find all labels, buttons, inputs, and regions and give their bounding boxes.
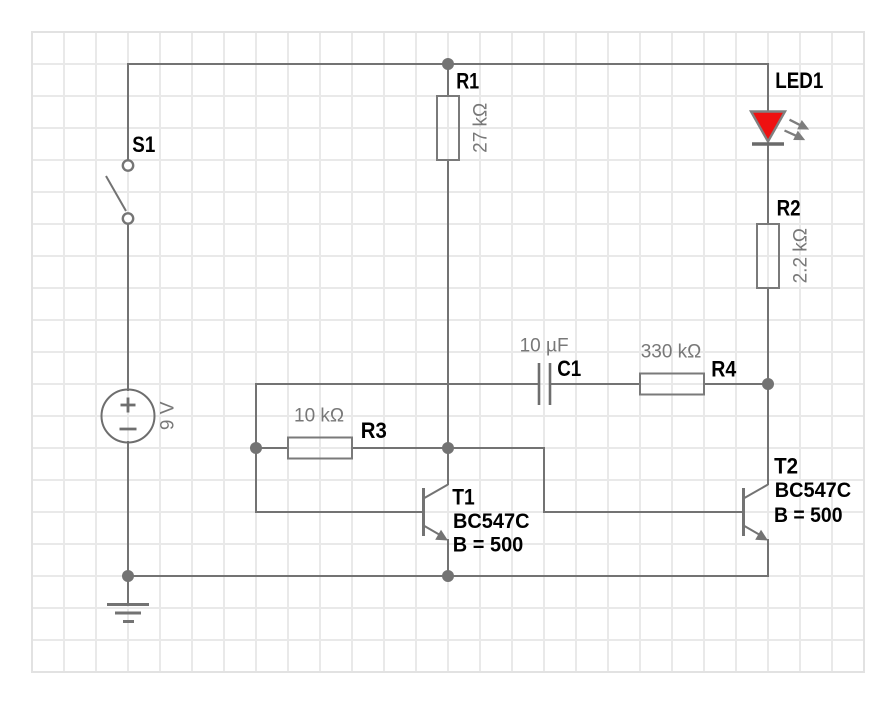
svg-text:R1: R1	[456, 68, 479, 93]
svg-text:10 µF: 10 µF	[520, 336, 569, 357]
svg-text:BC547C: BC547C	[775, 478, 852, 502]
svg-text:C1: C1	[557, 356, 581, 381]
svg-text:9 V: 9 V	[158, 401, 179, 430]
svg-text:T1: T1	[452, 485, 475, 510]
svg-text:330 kΩ: 330 kΩ	[641, 341, 702, 362]
svg-text:B = 500: B = 500	[453, 533, 524, 557]
svg-text:R3: R3	[361, 418, 387, 443]
svg-text:27 kΩ: 27 kΩ	[471, 103, 492, 153]
svg-text:T2: T2	[774, 453, 798, 478]
svg-text:S1: S1	[132, 132, 155, 157]
svg-text:LED1: LED1	[775, 68, 823, 93]
svg-text:10 kΩ: 10 kΩ	[294, 406, 344, 427]
svg-text:R2: R2	[777, 195, 801, 220]
svg-text:2.2 kΩ: 2.2 kΩ	[790, 228, 811, 283]
svg-text:B = 500: B = 500	[774, 503, 843, 527]
svg-text:BC547C: BC547C	[453, 509, 530, 533]
svg-text:R4: R4	[711, 357, 737, 382]
